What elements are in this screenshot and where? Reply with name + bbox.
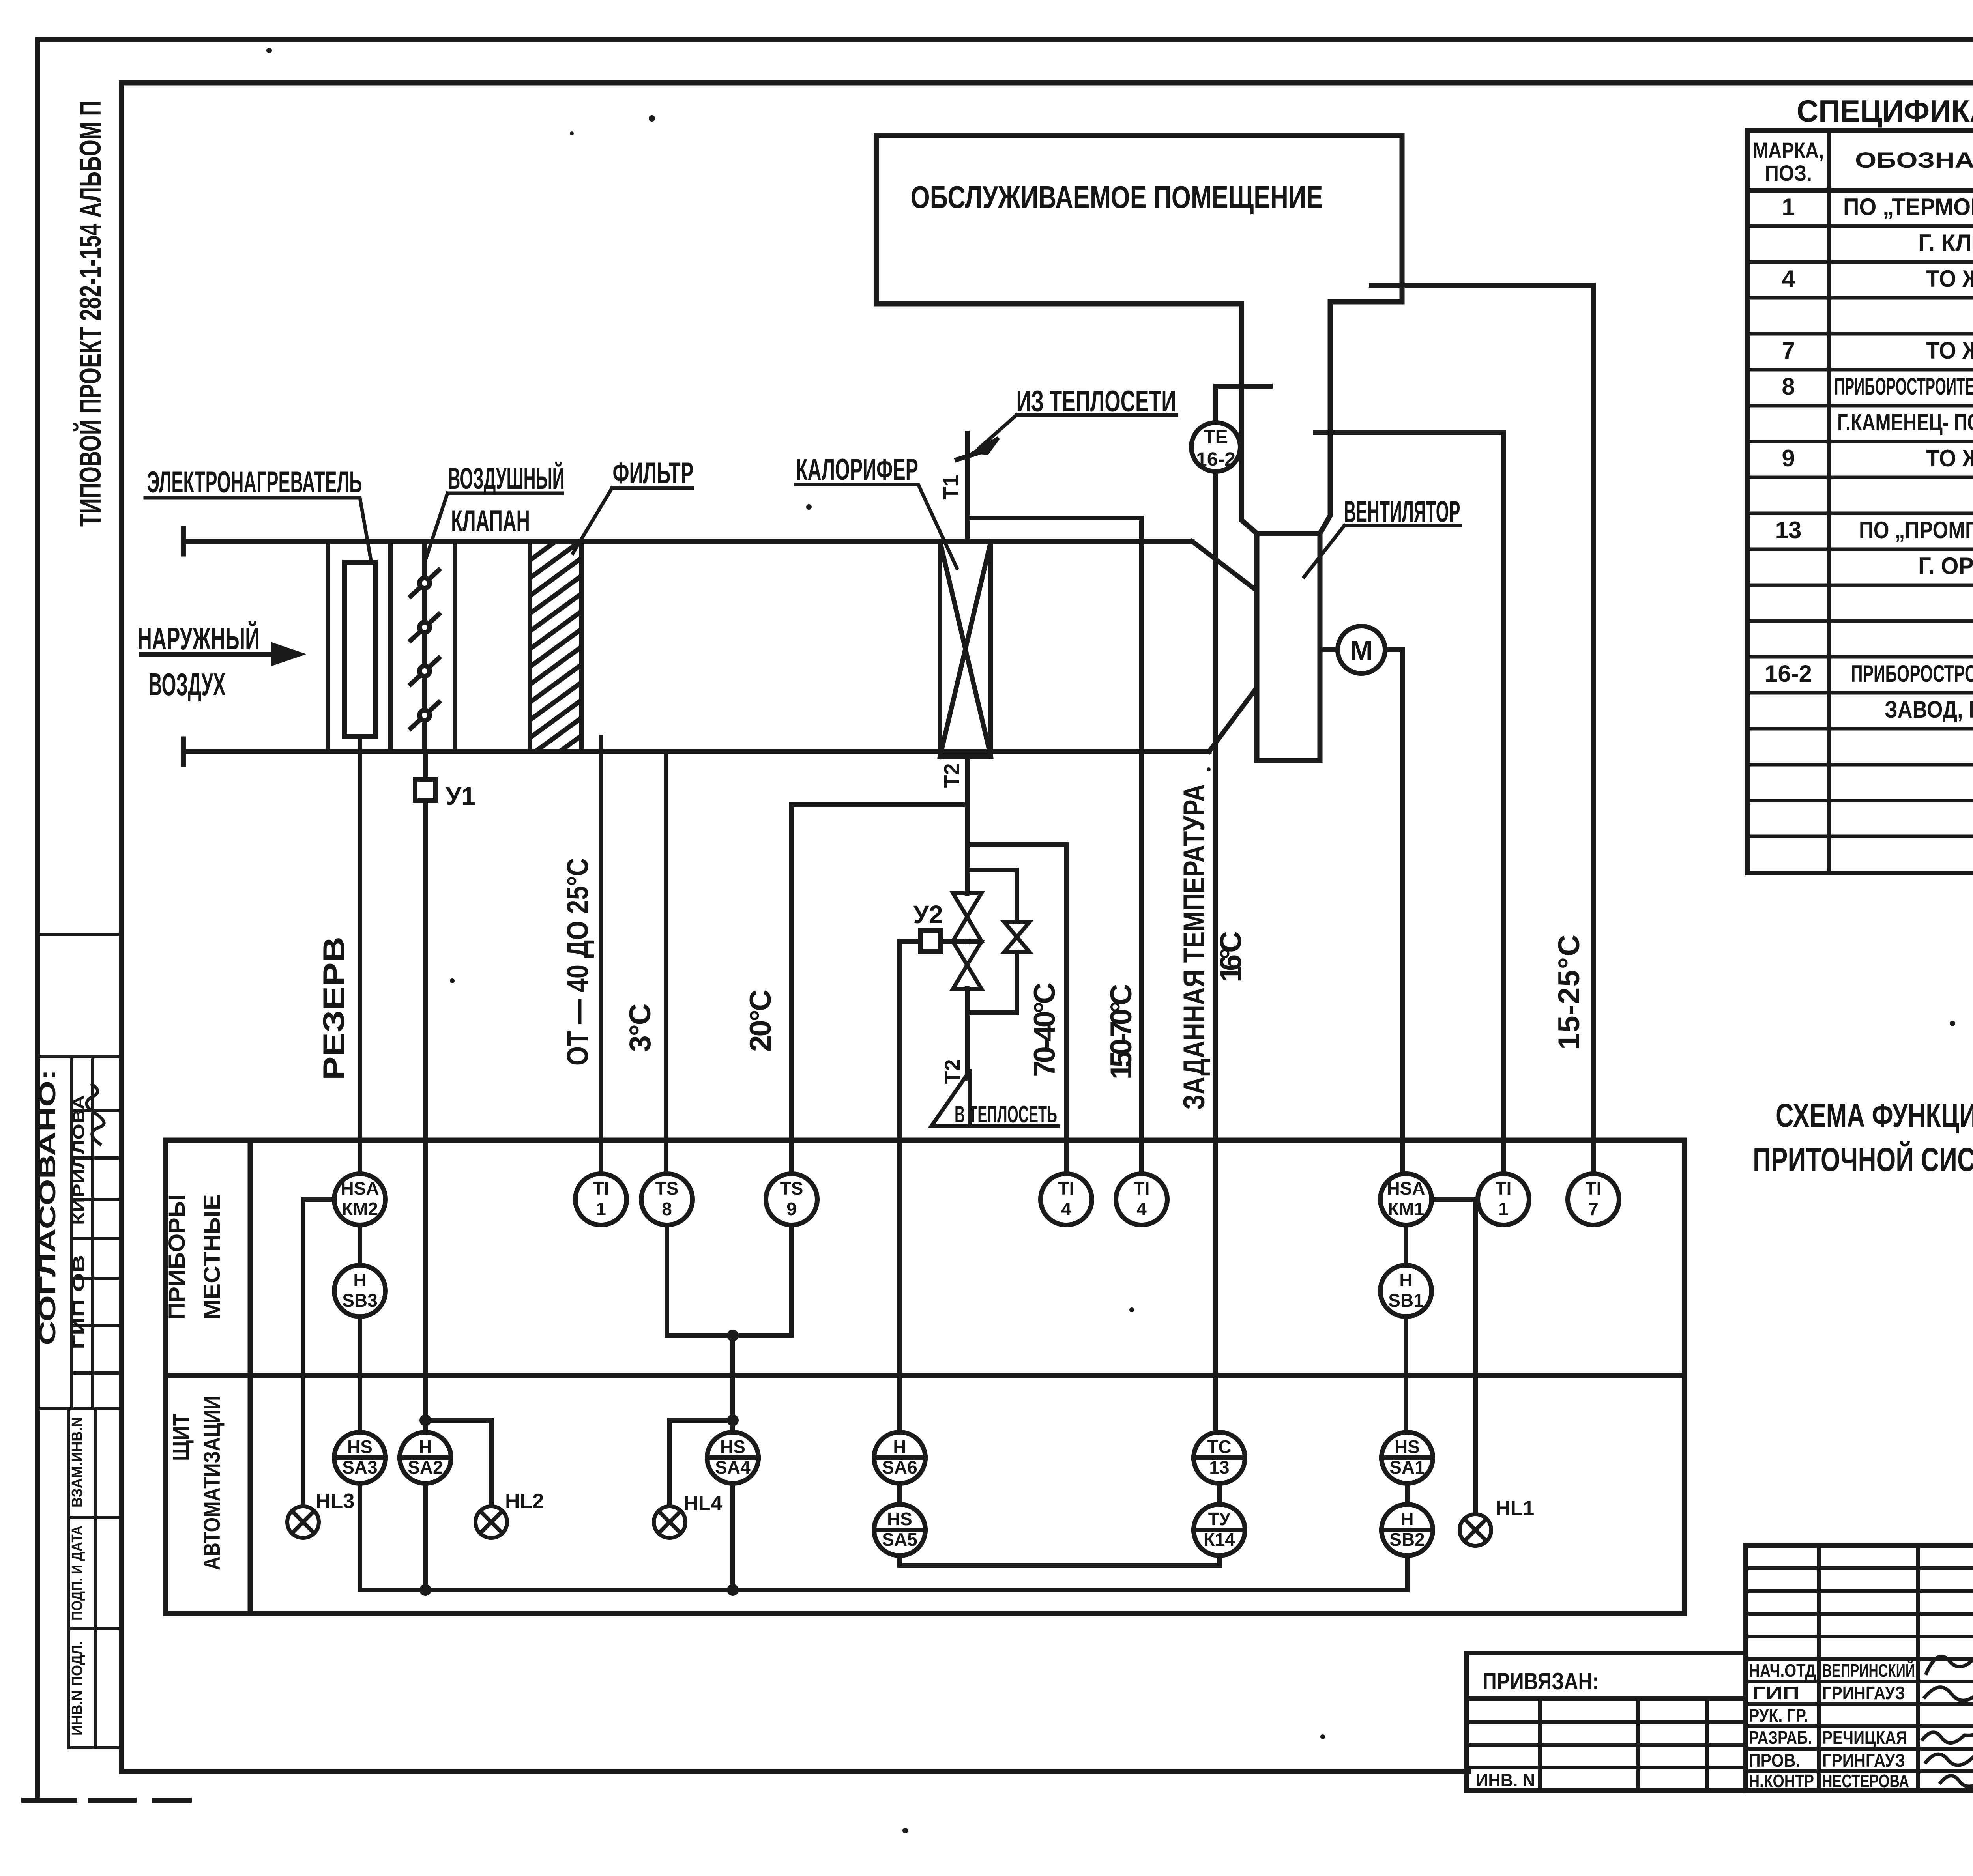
svg-text:Н: Н <box>353 1270 366 1290</box>
svg-text:ПО „ТЕРМОПРИБОР,”: ПО „ТЕРМОПРИБОР,” <box>1843 194 1973 220</box>
label leader Из теплосети <box>975 415 1176 453</box>
flag В теплосеть <box>931 1071 1058 1126</box>
privyazan block <box>1467 1653 1746 1790</box>
heating coil Калорифер <box>940 541 991 757</box>
svg-text:КЛАПАН: КЛАПАН <box>451 504 530 538</box>
bubble H SB2 <box>1381 1504 1433 1556</box>
svg-text:ТS: ТS <box>780 1178 803 1199</box>
svg-text:15-25°С: 15-25°С <box>1552 935 1586 1050</box>
label leader Воздушный клапан <box>425 493 562 560</box>
wire KM1 column <box>1406 1225 1407 1556</box>
svg-text:ТI: ТI <box>1586 1178 1602 1199</box>
svg-text:В ТЕПЛОСЕТЬ: В ТЕПЛОСЕТЬ <box>955 1101 1057 1128</box>
bubble TI 7 <box>1568 1174 1619 1225</box>
sensor line 70-40 to TI4 <box>1064 845 1069 1174</box>
table rows text <box>1765 194 1973 866</box>
svg-text:ПРИБОРЫ: ПРИБОРЫ <box>164 1194 190 1320</box>
line motor to KM1 <box>1400 650 1405 1174</box>
room tap to TI7 <box>1371 285 1593 1174</box>
svg-text:НАРУЖНЫЙ: НАРУЖНЫЙ <box>137 621 260 656</box>
bubble HSA KM1 <box>1380 1174 1432 1225</box>
svg-text:Г. КЛИН: Г. КЛИН <box>1918 230 1973 256</box>
svg-text:13: 13 <box>1775 517 1802 543</box>
approval stamp block left margin <box>37 934 122 1748</box>
svg-text:4: 4 <box>1061 1199 1071 1219</box>
instrument rows box <box>166 1140 1685 1614</box>
bubble HS SA4 <box>707 1432 758 1483</box>
heating return pipe T2 with valves <box>792 757 1066 1078</box>
svg-text:SА6: SА6 <box>882 1457 917 1478</box>
wire TS8+TS9 join to SA4 <box>667 1225 792 1590</box>
label leader Вентилятор <box>1304 526 1460 577</box>
svg-text:ЗАДАННАЯ ТЕМПЕРАТУРА: ЗАДАННАЯ ТЕМПЕРАТУРА <box>1177 784 1211 1110</box>
svg-text:SВ2: SВ2 <box>1389 1529 1425 1550</box>
svg-text:ИНВ. N: ИНВ. N <box>1476 1770 1535 1790</box>
bubble TI 1 <box>575 1174 627 1225</box>
svg-text:МЕСТНЫЕ: МЕСТНЫЕ <box>199 1194 225 1320</box>
svg-text:20°С: 20°С <box>744 989 777 1052</box>
svg-text:СОГЛАСОВАНО:: СОГЛАСОВАНО: <box>35 1069 60 1345</box>
svg-text:SА3: SА3 <box>342 1457 377 1478</box>
wire SA2 column <box>425 1420 491 1590</box>
svg-text:ТS: ТS <box>655 1178 679 1199</box>
svg-text:ТО ЖЕ: ТО ЖЕ <box>1926 337 1973 364</box>
svg-text:8: 8 <box>662 1199 672 1219</box>
label leader Калорифер <box>796 484 957 568</box>
line TE to TC13 Заданная температура <box>1216 386 1270 1432</box>
wire KM2-SB3-bus column <box>358 1225 362 1590</box>
svg-text:ГРИНГАУЗ: ГРИНГАУЗ <box>1822 1683 1905 1703</box>
svg-text:SВ3: SВ3 <box>342 1290 377 1311</box>
svg-text:ПРИТОЧНОЙ СИСТЕМЫ И ПРИМЕНИМА: ПРИТОЧНОЙ СИСТЕМЫ И ПРИМЕНИМА ДЛЯ СИСТЕМ… <box>1753 1141 1973 1178</box>
svg-text:РАЗРАБ.: РАЗРАБ. <box>1749 1727 1812 1748</box>
specification table grid <box>1747 130 1973 873</box>
air damper Воздушный клапан <box>411 541 439 752</box>
svg-text:ПРИБОРОСТРОИТЕЛЬНЫЙ: ПРИБОРОСТРОИТЕЛЬНЫЙ <box>1851 660 1973 687</box>
title block grid <box>1746 1545 1973 1790</box>
stamp signature <box>86 1084 104 1145</box>
filter Фильтр hatched <box>530 523 581 791</box>
role labels <box>1749 1660 1816 1791</box>
signatures <box>1922 1645 1973 1786</box>
svg-text:Г. ОРЕЛ: Г. ОРЕЛ <box>1918 553 1973 579</box>
svg-text:ТС: ТС <box>1207 1436 1231 1457</box>
electric heater Электронагреватель <box>344 562 375 736</box>
svg-text:РЕЗЕРВ: РЕЗЕРВ <box>317 937 351 1080</box>
svg-text:1: 1 <box>1498 1199 1509 1219</box>
svg-text:КИРИЛЛОВА: КИРИЛЛОВА <box>70 1095 88 1225</box>
bubble H SB3 <box>334 1265 386 1317</box>
svg-text:1: 1 <box>1782 194 1795 220</box>
svg-text:SВ1: SВ1 <box>1388 1290 1423 1311</box>
wire KM2 to lamp HL3 <box>303 1199 335 1506</box>
svg-text:К14: К14 <box>1204 1529 1235 1550</box>
svg-text:ВЕПРИНСКИЙ: ВЕПРИНСКИЙ <box>1822 1660 1915 1681</box>
svg-text:НS: НS <box>347 1436 373 1457</box>
svg-text:HL3: HL3 <box>316 1490 354 1513</box>
svg-text:4: 4 <box>1782 266 1795 292</box>
junction dot SA2 bus <box>419 1584 431 1596</box>
svg-text:Н: Н <box>419 1436 432 1457</box>
valve 1 on return pipe <box>953 893 981 941</box>
sensor line after filter to TI1 <box>599 737 603 1174</box>
svg-text:Т2: Т2 <box>941 1059 964 1084</box>
svg-text:АВТОМАТИЗАЦИИ: АВТОМАТИЗАЦИИ <box>199 1396 225 1570</box>
svg-text:КМ1: КМ1 <box>1388 1199 1424 1219</box>
svg-text:ОТ — 40 ДО 25°С: ОТ — 40 ДО 25°С <box>561 858 595 1066</box>
names <box>1822 1660 1915 1791</box>
svg-text:РУК. ГР.: РУК. ГР. <box>1749 1705 1808 1726</box>
bubble HS SA5 <box>874 1504 925 1556</box>
sensor line 150-70 to TI4 <box>1139 518 1144 1174</box>
bubble TI 1 b <box>1478 1174 1529 1225</box>
svg-text:ПРИВЯЗАН:: ПРИВЯЗАН: <box>1483 1668 1599 1695</box>
lamp HL2 <box>475 1506 507 1538</box>
lamp HL4 <box>654 1506 685 1538</box>
supply duct from fan to room <box>1241 302 1330 533</box>
lamp labels <box>316 1490 1534 1520</box>
svg-text:ВОЗДУШНЫЙ: ВОЗДУШНЫЙ <box>448 462 565 496</box>
svg-text:ТИПОВОЙ ПРОЕКТ 282-1-154 АЛЬБО: ТИПОВОЙ ПРОЕКТ 282-1-154 АЛЬБОМ П <box>73 101 107 527</box>
svg-text:HL2: HL2 <box>505 1490 544 1513</box>
svg-text:НS: НS <box>887 1509 912 1529</box>
svg-text:3°С: 3°С <box>623 1004 657 1052</box>
svg-text:НАЧ.ОТД: НАЧ.ОТД <box>1749 1660 1816 1681</box>
bubble TC 13 <box>1194 1432 1245 1483</box>
actuator У1 <box>415 752 436 1432</box>
table headers <box>1753 138 1973 185</box>
svg-text:ТО ЖЕ: ТО ЖЕ <box>1926 266 1973 292</box>
svg-text:ЩИТ: ЩИТ <box>168 1414 194 1461</box>
svg-text:НS: НS <box>720 1436 745 1457</box>
bubble TI 4 a <box>1041 1174 1092 1225</box>
svg-text:SА2: SА2 <box>408 1457 443 1478</box>
bubble H SB1 <box>1380 1265 1432 1317</box>
svg-text:HL1: HL1 <box>1496 1497 1534 1520</box>
svg-text:ИЗ ТЕПЛОСЕТИ: ИЗ ТЕПЛОСЕТИ <box>1016 385 1176 418</box>
svg-text:7: 7 <box>1782 337 1795 364</box>
junction dot TS join <box>727 1330 739 1341</box>
svg-text:HL4: HL4 <box>683 1492 722 1515</box>
svg-text:ТI: ТI <box>1058 1178 1074 1199</box>
duct partitions <box>328 541 455 752</box>
svg-text:16-2: 16-2 <box>1196 449 1235 470</box>
svg-text:НS: НS <box>1395 1436 1420 1457</box>
svg-text:ВОЗДУХ: ВОЗДУХ <box>149 667 226 702</box>
svg-text:ПОЗ.: ПОЗ. <box>1765 161 1812 185</box>
bubble TI 4 b <box>1116 1174 1167 1225</box>
svg-text:НЕСТЕРОВА: НЕСТЕРОВА <box>1822 1771 1909 1791</box>
svg-text:ГИП ОВ: ГИП ОВ <box>70 1255 88 1349</box>
junction dot SA4 bus <box>727 1584 739 1596</box>
bubble H SA6 <box>874 1432 925 1483</box>
svg-text:SА5: SА5 <box>882 1529 917 1550</box>
svg-text:СПЕЦИФИКАЦИЯ ЭЛЕМЕНТОВ СИСТЕ: СПЕЦИФИКАЦИЯ ЭЛЕМЕНТОВ СИСТЕМ П1, П2 <box>1797 94 1973 128</box>
svg-text:МАРКА,: МАРКА, <box>1753 138 1824 163</box>
svg-text:Н.КОНТР: Н.КОНТР <box>1749 1771 1814 1791</box>
sensor line reserve to KM2 <box>358 736 362 1174</box>
svg-text:16-2: 16-2 <box>1765 660 1812 687</box>
svg-text:ВЗАМ.ИНВ.N: ВЗАМ.ИНВ.N <box>69 1417 86 1508</box>
svg-text:ТI: ТI <box>1496 1178 1512 1199</box>
heating supply pipe T1 from network <box>957 433 1142 541</box>
svg-text:SА1: SА1 <box>1389 1457 1425 1478</box>
svg-text:ПОДП. И ДАТА: ПОДП. И ДАТА <box>69 1526 86 1620</box>
lamp HL1 <box>1460 1514 1491 1546</box>
svg-text:У2: У2 <box>913 900 943 929</box>
svg-text:ОБОЗНАЧЕНИЕ: ОБОЗНАЧЕНИЕ <box>1855 148 1973 172</box>
svg-text:ЭЛЕКТРОНАГРЕВАТЕЛЬ: ЭЛЕКТРОНАГРЕВАТЕЛЬ <box>147 466 362 499</box>
svg-text:16°С: 16°С <box>1214 931 1248 982</box>
air duct AHU casing <box>183 529 1209 764</box>
outside air arrow <box>141 645 299 663</box>
svg-text:М: М <box>1350 635 1373 666</box>
svg-text:ЗАВОД, Г.ЛУЦК: ЗАВОД, Г.ЛУЦК <box>1885 696 1973 723</box>
bubble TS 9 <box>766 1174 817 1225</box>
svg-text:HSA: HSA <box>341 1178 379 1199</box>
bubble texts row 2 <box>342 1436 1425 1550</box>
svg-text:ПРОВ.: ПРОВ. <box>1749 1750 1800 1771</box>
bubble texts row 1 <box>341 1178 1601 1311</box>
svg-text:РЕЧИЦКАЯ: РЕЧИЦКАЯ <box>1822 1727 1907 1748</box>
wire KM1 to lamp HL1 <box>1432 1199 1475 1514</box>
svg-text:ПРИБОРОСТРОИТЕЛЬНЫЙ ЗАВОД,: ПРИБОРОСТРОИТЕЛЬНЫЙ ЗАВОД, <box>1834 373 1973 400</box>
svg-text:ВЕНТИЛЯТОР: ВЕНТИЛЯТОР <box>1344 495 1460 529</box>
svg-text:150-70°С: 150-70°С <box>1104 984 1138 1080</box>
svg-text:8: 8 <box>1782 373 1795 400</box>
svg-text:Т2: Т2 <box>940 763 964 788</box>
svg-text:Т1: Т1 <box>939 475 963 499</box>
fan motor M <box>1321 626 1402 673</box>
svg-text:КМ2: КМ2 <box>342 1199 378 1219</box>
svg-text:У1: У1 <box>446 782 475 810</box>
room box Обслуживаемое помещение <box>876 136 1402 304</box>
table title <box>1797 94 1973 128</box>
svg-text:ОБСЛУЖИВАЕМОЕ ПОМЕЩЕНИЕ: ОБСЛУЖИВАЕМОЕ ПОМЕЩЕНИЕ <box>911 180 1323 215</box>
junction dot SA2 branch <box>419 1414 431 1426</box>
sensor line 20C to TS9 <box>789 805 794 1174</box>
svg-text:ГРИНГАУЗ: ГРИНГАУЗ <box>1822 1750 1905 1771</box>
svg-text:ТО ЖЕ: ТО ЖЕ <box>1926 445 1973 471</box>
svg-text:1: 1 <box>596 1199 606 1219</box>
duct transition to fan <box>1192 541 1255 752</box>
svg-text:КАЛОРИФЕР: КАЛОРИФЕР <box>796 453 918 486</box>
svg-text:9: 9 <box>1782 445 1795 471</box>
svg-text:Н: Н <box>893 1436 906 1457</box>
svg-text:ТУ: ТУ <box>1208 1509 1231 1529</box>
svg-text:SА4: SА4 <box>715 1457 751 1478</box>
fan Вентилятор <box>1257 533 1320 760</box>
bubble TS 8 <box>641 1174 693 1225</box>
actuator У2 <box>900 930 967 952</box>
bubble HS SA3 <box>334 1432 386 1483</box>
svg-text:ТI: ТI <box>593 1178 609 1199</box>
sensor line 3C to TS8 <box>664 752 668 1174</box>
label leader Фильтр <box>573 488 693 553</box>
wire SA6-SA5 column and link to K14 <box>900 941 1219 1566</box>
svg-text:70-40°С: 70-40°С <box>1028 982 1061 1077</box>
svg-text:HSA: HSA <box>1387 1178 1425 1199</box>
valve 2 on return pipe <box>953 942 981 989</box>
bypass valve <box>1004 922 1030 952</box>
bubble H SA2 <box>400 1432 451 1483</box>
bottom bus wire <box>360 1556 1407 1590</box>
svg-text:9: 9 <box>786 1199 797 1219</box>
svg-text:4: 4 <box>1136 1199 1147 1219</box>
title block texts <box>1476 1560 1973 1793</box>
bubble HS SA1 <box>1381 1432 1433 1483</box>
svg-text:ТI: ТI <box>1134 1178 1150 1199</box>
junction dot SA4 branch <box>727 1414 739 1426</box>
svg-text:Н: Н <box>1400 1509 1413 1529</box>
svg-text:Н: Н <box>1399 1270 1412 1290</box>
lamp HL3 <box>287 1506 319 1538</box>
svg-text:Г.КАМЕНЕЦ- ПОДОЛЬСКИЙ: Г.КАМЕНЕЦ- ПОДОЛЬСКИЙ <box>1837 409 1973 436</box>
bubble TY K14 <box>1194 1504 1245 1556</box>
svg-text:13: 13 <box>1209 1457 1229 1478</box>
label leader Электронагреватель <box>145 498 371 560</box>
svg-text:ИНВ.N ПОДЛ.: ИНВ.N ПОДЛ. <box>69 1641 86 1736</box>
svg-text:ГИП: ГИП <box>1752 1683 1799 1703</box>
TE 16-2 sensor <box>1191 423 1240 471</box>
svg-text:7: 7 <box>1588 1199 1599 1219</box>
bubble HSA KM2 <box>334 1174 386 1225</box>
svg-text:ПО „ПРОМПРИБОР,”: ПО „ПРОМПРИБОР,” <box>1859 517 1973 543</box>
duct tap to TI1b <box>1316 432 1503 1174</box>
svg-text:ТЕ: ТЕ <box>1204 427 1228 448</box>
svg-text:СХЕМА ФУНКЦИОНАЛЬНАЯ СОСТАВЛЕН: СХЕМА ФУНКЦИОНАЛЬНАЯ СОСТАВЛЕНА ДЛЯ ОДНО… <box>1776 1097 1973 1134</box>
wire TC13 K14 column <box>1217 1432 1222 1505</box>
svg-text:ФИЛЬТР: ФИЛЬТР <box>613 456 694 490</box>
